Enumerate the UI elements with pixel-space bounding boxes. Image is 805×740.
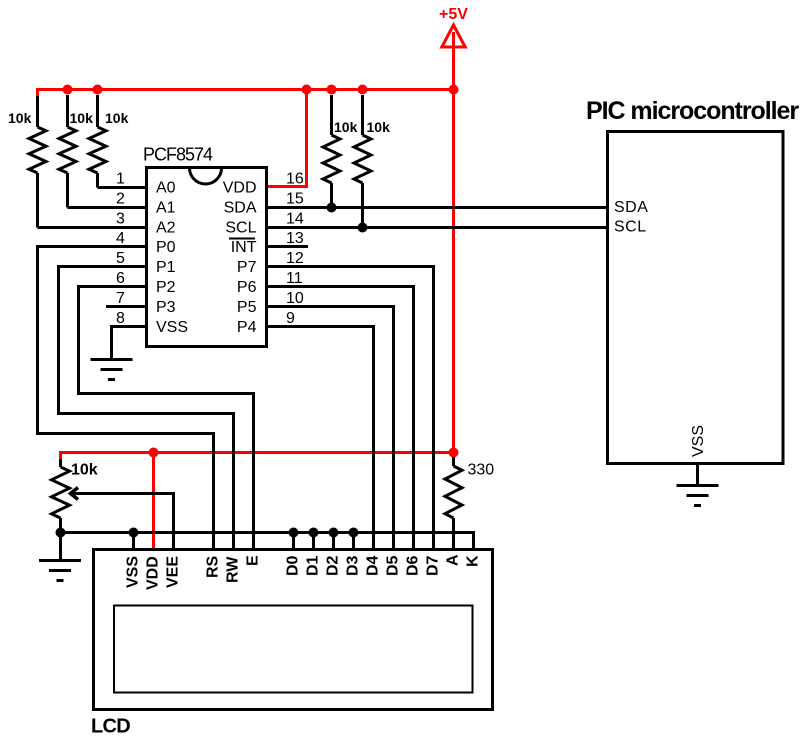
node junction red line 330 resistor <box>449 448 459 458</box>
svg-text:P7: P7 <box>237 259 257 276</box>
node junction rail-R2 <box>63 85 73 95</box>
wire +5V stem (red vertical x=453) <box>452 32 455 453</box>
svg-text:1: 1 <box>116 171 125 188</box>
wire LCD VSS drop <box>132 533 135 549</box>
svg-text:P5: P5 <box>237 299 257 316</box>
svg-text:D4: D4 <box>365 555 382 576</box>
svg-text:D7: D7 <box>425 555 442 576</box>
svg-text:10k: 10k <box>70 110 94 126</box>
node junction LCD D0 <box>289 528 299 538</box>
svg-text:VSS: VSS <box>690 425 707 457</box>
wire P4 to LCD D4 <box>266 327 374 549</box>
svg-text:SDA: SDA <box>224 200 257 217</box>
node junction red line LCD VDD <box>149 448 159 458</box>
wire INT stub pin13 <box>266 245 308 248</box>
wire red power rail y=90 <box>38 90 454 98</box>
svg-text:D6: D6 <box>405 555 422 576</box>
svg-text:3: 3 <box>116 211 125 228</box>
wire SCL pin14 to PIC <box>266 226 608 229</box>
svg-text:A2: A2 <box>156 220 176 237</box>
node junction rail +5V stem <box>449 85 459 95</box>
node junction SDA pull-up <box>327 203 337 213</box>
svg-text:E: E <box>245 555 262 566</box>
svg-text:VSS: VSS <box>156 319 188 336</box>
wire P6 to LCD D6 <box>266 287 414 549</box>
svg-text:15: 15 <box>286 191 304 208</box>
+5V supply triangle <box>442 25 465 47</box>
svg-text:SCL: SCL <box>225 220 256 237</box>
svg-text:P3: P3 <box>156 299 176 316</box>
svg-text:11: 11 <box>286 270 303 287</box>
wire P3 stub pin7 <box>106 305 147 308</box>
svg-text:VSS: VSS <box>125 556 142 588</box>
svg-text:INT: INT <box>231 239 257 256</box>
svg-text:P2: P2 <box>156 279 176 296</box>
svg-text:A1: A1 <box>156 200 176 217</box>
svg-text:10k: 10k <box>8 110 32 126</box>
wire P7 to LCD D7 <box>266 267 434 549</box>
svg-text:SCL: SCL <box>614 219 647 236</box>
svg-text:7: 7 <box>116 290 125 307</box>
svg-text:14: 14 <box>286 211 304 228</box>
ground IC VSS <box>91 360 133 380</box>
node junction SCL pull-up <box>358 223 368 233</box>
svg-text:P0: P0 <box>156 239 176 256</box>
LCD module box <box>94 550 493 710</box>
resistor R2 10k (A1 pull-up) <box>59 95 76 208</box>
svg-text:16: 16 <box>286 171 304 188</box>
wire A0 pin1 <box>98 186 148 189</box>
LCD screen inner rect <box>114 606 473 693</box>
svg-text:2: 2 <box>116 191 125 208</box>
wire LCD D3 drop <box>352 533 355 549</box>
svg-text:6: 6 <box>116 270 125 287</box>
svg-text:8: 8 <box>116 310 125 327</box>
svg-text:VEE: VEE <box>165 556 182 588</box>
wire A1 pin2 <box>68 206 148 209</box>
resistor R3 10k (A0 pull-up) <box>89 95 106 188</box>
svg-text:RW: RW <box>225 556 242 583</box>
ground pot bottom <box>39 561 81 581</box>
svg-text:P4: P4 <box>237 319 257 336</box>
node junction LCD D3 <box>349 528 359 538</box>
svg-text:D5: D5 <box>385 555 402 576</box>
node junction rail-VDD branch <box>302 85 312 95</box>
svg-text:D1: D1 <box>305 555 322 576</box>
svg-text:PIC microcontroller: PIC microcontroller <box>586 97 799 125</box>
svg-text:12: 12 <box>286 250 304 267</box>
svg-text:D2: D2 <box>325 555 342 576</box>
svg-text:10k: 10k <box>105 110 129 126</box>
svg-text:P6: P6 <box>237 279 257 296</box>
resistor R5 10k (SCL pull-up) <box>354 95 371 228</box>
wire LCD D1 drop <box>312 533 315 549</box>
svg-text:A: A <box>445 554 462 566</box>
svg-text:10k: 10k <box>367 119 391 135</box>
svg-text:PCF8574: PCF8574 <box>143 145 213 165</box>
potentiometer RV1 10k body <box>52 459 70 560</box>
node junction LCD D2 <box>329 528 339 538</box>
svg-text:SDA: SDA <box>614 199 648 216</box>
node junction rail-R3 <box>93 85 103 95</box>
svg-text:RS: RS <box>205 555 222 578</box>
svg-text:10: 10 <box>286 290 304 307</box>
svg-text:VDD: VDD <box>223 180 257 197</box>
svg-text:+5V: +5V <box>439 6 468 23</box>
wire ground bus to LCD <box>61 533 474 549</box>
svg-text:10k: 10k <box>334 119 358 135</box>
svg-text:P1: P1 <box>156 259 176 276</box>
svg-text:330: 330 <box>468 462 495 479</box>
svg-text:4: 4 <box>116 230 125 247</box>
wire P5 to LCD D5 <box>266 307 394 549</box>
wire P2 to LCD E <box>79 287 254 549</box>
wire VSS pin8 to ground <box>112 327 148 360</box>
resistor R6 330 (backlight) <box>445 457 462 548</box>
svg-text:LCD: LCD <box>91 716 130 738</box>
node junction LCD D1 <box>309 528 319 538</box>
wire red vertical to LCD VDD pin <box>152 453 155 549</box>
wire LCD D0 drop <box>292 533 295 549</box>
node junction rail-R4 <box>327 85 337 95</box>
node junction rail-R5 <box>358 85 368 95</box>
svg-text:A0: A0 <box>156 180 176 197</box>
resistor R4 10k (SDA pull-up) <box>323 95 340 208</box>
svg-text:9: 9 <box>286 310 295 327</box>
resistor R1 10k (A2 pull-up) <box>29 96 46 228</box>
PIC microcontroller box <box>608 132 784 464</box>
wire SDA pin15 to PIC <box>266 206 608 209</box>
svg-text:VDD: VDD <box>145 556 162 590</box>
svg-text:10k: 10k <box>71 462 98 479</box>
ground PIC VSS <box>677 486 719 506</box>
node junction LCD VSS <box>129 528 139 538</box>
U1 INT overline <box>229 238 255 240</box>
svg-text:K: K <box>465 555 482 567</box>
svg-text:5: 5 <box>116 250 125 267</box>
wire red line y=453 to pot and LCD VDD <box>61 453 454 461</box>
potentiometer wiper arrow to LCD VEE <box>71 488 174 549</box>
wire P0 to LCD RS <box>38 247 214 549</box>
wire LCD D2 drop <box>332 533 335 549</box>
svg-text:D3: D3 <box>345 555 362 576</box>
op-amp U1 PCF8574 body <box>147 168 267 347</box>
wire A2 pin3 <box>38 226 148 229</box>
wire red branch to VDD pin16 <box>266 90 307 187</box>
wire P1 to LCD RW <box>59 267 234 549</box>
wire PIC VSS to ground <box>696 464 699 486</box>
svg-text:13: 13 <box>286 230 304 247</box>
node junction pot bottom <box>56 528 66 538</box>
U1 notch <box>190 168 222 184</box>
svg-text:D0: D0 <box>285 555 302 576</box>
